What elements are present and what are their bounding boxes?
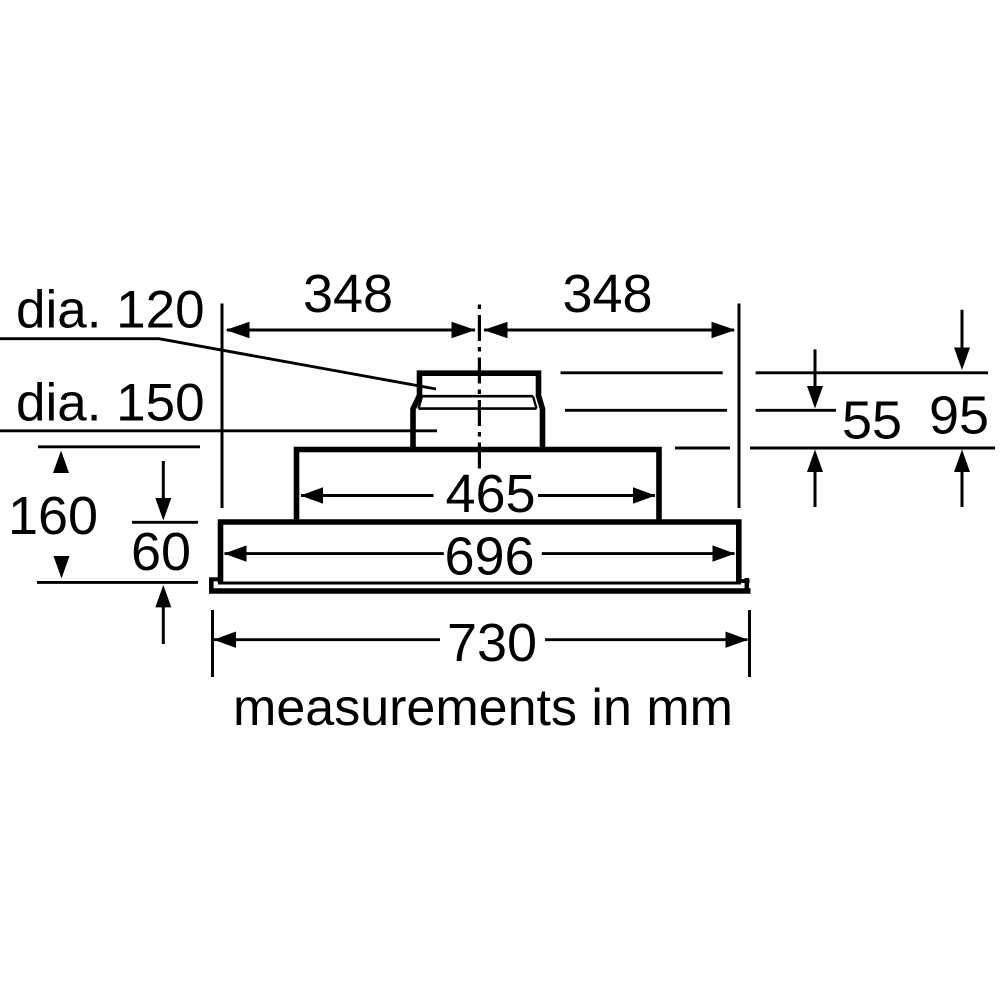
- lower housing bottom edge: [218, 582, 741, 585]
- svg-text:348: 348: [562, 264, 652, 324]
- 730 extension line right: [748, 610, 751, 677]
- extension line left (x=222): [221, 304, 224, 509]
- arrowhead 696 left: [224, 545, 247, 561]
- arrowhead 465 right: [633, 487, 656, 503]
- collar inner chamfer left: [419, 396, 423, 408]
- arrowhead 465 left: [301, 487, 324, 503]
- 60 top extension line: [132, 521, 198, 524]
- svg-text:dia. 120: dia. 120: [16, 281, 205, 340]
- arrowhead 348 right dim, right: [712, 322, 736, 338]
- svg-text:160: 160: [8, 486, 98, 546]
- 60 up arrow shaft: [162, 606, 165, 644]
- 160 bottom extension line: [37, 581, 198, 584]
- arrowhead 730 right: [726, 632, 749, 648]
- collar inner step line lower: [419, 407, 537, 410]
- svg-text:measurements in mm: measurements in mm: [233, 679, 733, 737]
- dia 150 leader line: [0, 429, 437, 432]
- svg-text:55: 55: [842, 391, 902, 451]
- 95 down arrow shaft: [961, 310, 964, 348]
- svg-text:465: 465: [445, 464, 535, 524]
- arrowhead 55 up: [807, 450, 823, 473]
- dia 120 leader line: [0, 339, 436, 389]
- middle housing box (465 wide): [297, 450, 660, 523]
- arrowhead 348 right dim, left: [484, 322, 508, 338]
- right extension line y=372 segment b: [756, 371, 988, 374]
- arrowhead 696 right: [713, 545, 736, 561]
- 55 down arrow shaft: [814, 349, 817, 388]
- right extension line y=410 segment b: [756, 409, 836, 412]
- lower housing box (696 wide): [221, 522, 739, 583]
- 95 up arrow shaft: [961, 470, 964, 507]
- collar inner chamfer right: [533, 396, 537, 408]
- right extension line y=372 segment a: [561, 371, 723, 374]
- dimension line 730 right: [545, 638, 748, 641]
- arrowhead 160 up: [53, 451, 69, 474]
- 55 up arrow shaft: [814, 470, 817, 507]
- right extension line y=410 segment a: [565, 409, 727, 412]
- 730 extension line left: [211, 610, 214, 677]
- arrowhead 55 down: [807, 386, 823, 409]
- bottom plate left lip: [209, 577, 223, 581]
- dimension line 348 left: [227, 329, 475, 332]
- svg-text:696: 696: [444, 527, 534, 587]
- dimension line 696 right: [542, 552, 735, 555]
- dimension line 348 right: [484, 329, 734, 332]
- svg-text:dia. 150: dia. 150: [16, 374, 205, 433]
- dimension line 465 left: [301, 494, 434, 497]
- bottom plate right edge: [745, 578, 750, 591]
- right extension line y=448 segment a: [675, 447, 730, 450]
- right extension line y=448 segment b: [750, 447, 995, 450]
- dimension line 465 right: [538, 494, 655, 497]
- 160 top extension line: [38, 445, 200, 448]
- bottom plate bottom edge: [209, 588, 751, 594]
- arrowhead 348 left dim, left: [226, 322, 250, 338]
- arrowhead 730 left: [214, 632, 237, 648]
- 60 down arrow shaft: [162, 461, 165, 500]
- bottom plate right lip: [737, 579, 750, 583]
- arrowhead 348 left dim, right: [452, 322, 476, 338]
- bottom plate left edge: [209, 578, 214, 592]
- dimension line 730 left: [214, 638, 440, 641]
- svg-text:348: 348: [303, 264, 393, 324]
- svg-text:95: 95: [929, 386, 989, 446]
- dimension line 696 left: [225, 552, 444, 555]
- extension line right (x=739): [738, 304, 741, 509]
- arrowhead 95 down: [954, 348, 970, 371]
- arrowhead 160 down: [54, 556, 70, 579]
- arrowhead 60 down: [155, 498, 171, 521]
- centerline (vertical dash-dot axis): [478, 301, 481, 470]
- arrowhead 95 up: [954, 450, 970, 473]
- svg-text:730: 730: [447, 613, 537, 673]
- svg-text:60: 60: [131, 522, 191, 582]
- duct collar outline (dia 120/150): [413, 373, 543, 449]
- collar inner step line upper: [422, 395, 533, 398]
- arrowhead 60 up: [155, 585, 171, 608]
